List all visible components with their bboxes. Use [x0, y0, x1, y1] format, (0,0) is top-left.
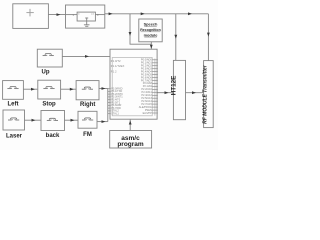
microcontroller U1 outer box [110, 49, 157, 119]
svg-text:out: out [91, 13, 94, 16]
svg-text:Speech: Speech [144, 22, 158, 27]
svg-text:Left: Left [8, 102, 19, 108]
Right switch box [76, 81, 99, 100]
wire into regulator inner [66, 14, 78, 16]
wire asm box to MCU [129, 120, 131, 131]
wire Up to MCU [62, 55, 110, 57]
wire speech module to MCU [150, 42, 152, 49]
switch symbol Left [7, 87, 18, 89]
MCU right pin stubs [152, 60, 158, 113]
svg-text:module: module [144, 32, 159, 37]
wire Right to MCU bus [99, 88, 108, 90]
switch symbol Stop [43, 87, 54, 89]
switch symbol Laser [8, 118, 19, 120]
wire MCU to HT12E [157, 92, 173, 94]
svg-text:Up: Up [42, 69, 50, 75]
svg-text:Laser: Laser [6, 134, 23, 140]
microcontroller inner pin frame [112, 58, 152, 116]
plus symbol in power box [26, 9, 33, 17]
svg-text:P1.2: P1.2 [111, 69, 117, 73]
left bus wire node [107, 89, 109, 122]
ground symbol [86, 21, 88, 25]
svg-text:program: program [117, 141, 144, 148]
voltage regulator outer box U2 [66, 5, 105, 28]
top power rail wire [105, 13, 209, 15]
MCU left pin stubs lower group [108, 89, 111, 114]
svg-text:Stop: Stop [42, 102, 56, 108]
wire rail drop to RF module [207, 14, 209, 61]
power supply box B1 [13, 4, 49, 29]
Laser switch box [3, 110, 25, 130]
switch symbol back [47, 118, 58, 120]
MCU left pin labels lower group [111, 86, 123, 115]
switch symbol FM [82, 118, 93, 120]
FM switch box [78, 111, 97, 128]
svg-text:Right: Right [80, 102, 95, 108]
svg-text:P1.1/T2EX: P1.1/T2EX [111, 64, 125, 68]
wire rail drop to HT12E [175, 14, 177, 61]
svg-text:XTAL1: XTAL1 [111, 112, 119, 116]
svg-text:FM: FM [83, 132, 92, 138]
svg-text:EA/VPP: EA/VPP [143, 111, 153, 115]
back switch box [41, 111, 65, 131]
svg-text:P1.0/T2: P1.0/T2 [111, 59, 121, 63]
svg-text:back: back [46, 133, 60, 139]
wire power box to regulator [48, 14, 65, 16]
Left switch box [3, 81, 24, 100]
Up switch box [37, 49, 62, 67]
wire FM to MCU bus [97, 121, 108, 123]
wire Laser to back [25, 119, 42, 121]
wire Left to Stop [23, 88, 37, 90]
wire back to FM [65, 119, 79, 121]
regulator gnd pin T [86, 18, 88, 21]
HT12E encoder box [173, 60, 185, 119]
regulator inner IC box [77, 12, 95, 21]
MCU right pin labels [139, 58, 153, 115]
wire HT12E to RF module [186, 92, 204, 94]
RF module transmitter box [204, 61, 214, 128]
svg-text:RF MODULE Transmitter: RF MODULE Transmitter [202, 64, 208, 124]
switch symbol Up [43, 54, 54, 56]
wire out of regulator inner [95, 14, 104, 16]
Stop switch box [38, 80, 61, 99]
MCU left pin labels upper group [111, 59, 125, 73]
wire Stop to Right [61, 88, 77, 90]
speech recognition module box [139, 19, 162, 42]
asm/c program box [110, 131, 152, 149]
switch symbol Right [82, 87, 93, 89]
wire rail drop to MCU [130, 14, 151, 44]
